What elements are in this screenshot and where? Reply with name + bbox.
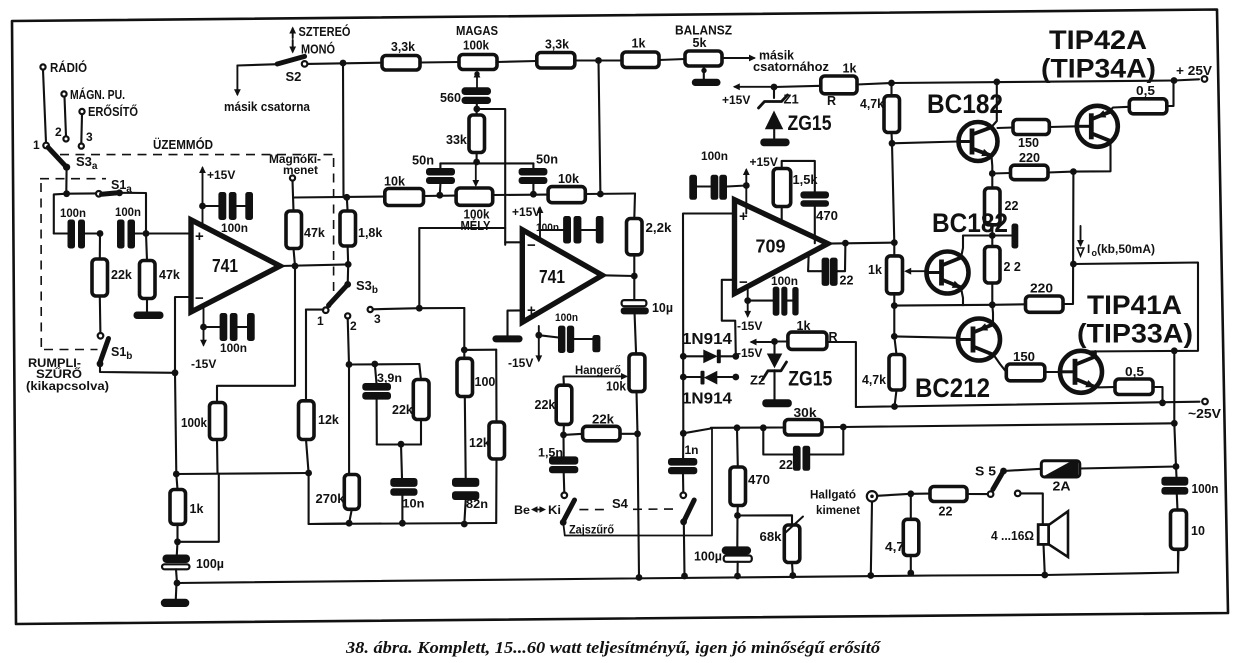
node D1 right [732, 353, 739, 360]
node 470 bottom [734, 512, 792, 525]
potentiometer Hangero 10k [564, 354, 645, 394]
node U1 vm [200, 324, 207, 331]
svg-text:ÜZEMMÓD: ÜZEMMÓD [153, 137, 213, 152]
node A [97, 230, 104, 237]
svg-text:220: 220 [1030, 282, 1053, 296]
node D2 left [680, 374, 687, 381]
node B [143, 230, 150, 237]
svg-text:10k: 10k [558, 172, 579, 186]
svg-text:100n: 100n [60, 206, 86, 220]
svg-text:30k: 30k [794, 406, 817, 420]
potentiometer BALANSZ 5k [675, 24, 732, 80]
svg-text:1N914: 1N914 [682, 331, 732, 348]
svg-text:470: 470 [816, 209, 838, 223]
svg-text:csatornához: csatornához [753, 60, 829, 74]
-15V arrow Z2 [737, 339, 775, 360]
svg-text:560: 560 [440, 91, 461, 105]
capacitor 100u [162, 542, 224, 583]
capacitor 100n U1 bottom [204, 313, 255, 355]
wire U3 out [828, 243, 895, 244]
wire [575, 59, 622, 61]
op-amp U1 741 [191, 220, 280, 312]
resistor 22k C [535, 385, 572, 435]
node top right [595, 57, 602, 64]
svg-text:1: 1 [33, 138, 40, 152]
svg-text:100k: 100k [463, 39, 489, 53]
resistor 47k input [140, 234, 180, 313]
wire [659, 59, 685, 60]
svg-text:3,3k: 3,3k [391, 40, 415, 54]
resistor 100k feedback [181, 403, 226, 474]
wire Q4 emitter [1095, 386, 1116, 389]
capacitor 100n U3 top [689, 149, 746, 200]
switch S1a [96, 178, 146, 234]
wire U3 minus loop [722, 280, 736, 357]
node 560 bottom [473, 106, 505, 245]
svg-text:470: 470 [748, 473, 770, 487]
svg-text:709: 709 [756, 237, 786, 257]
wire inverting input U1 [175, 297, 191, 373]
wire BC182-1 base [892, 142, 959, 144]
svg-text:(kikapcsolva): (kikapcsolva) [26, 381, 109, 393]
node 22 mid [989, 232, 996, 239]
svg-text:+ 25V: + 25V [1176, 63, 1212, 78]
+15V supply U1 [199, 166, 235, 226]
switch S3a [33, 125, 98, 172]
wire hallgato right [877, 494, 911, 496]
svg-text:Hangerő: Hangerő [575, 363, 621, 377]
resistor 1k R upper [774, 62, 892, 109]
diode D1 1N914 [682, 331, 736, 363]
resistor 4.7k A [860, 83, 900, 143]
wire [80, 115, 83, 144]
svg-text:+15V: +15V [512, 205, 540, 219]
capacitor 470 [800, 191, 838, 243]
wire 100/12k link [464, 349, 496, 351]
ground U2 plus [492, 335, 522, 342]
uzemmod dashed box [60, 137, 334, 301]
terminal EROSITO [79, 104, 138, 119]
svg-text:SZTEREÓ: SZTEREÓ [299, 24, 351, 39]
node driver base [889, 140, 896, 243]
node D2 right [732, 374, 739, 381]
capacitor 100n U2 top [536, 216, 604, 244]
svg-text:BC182: BC182 [932, 208, 1008, 238]
node D1 left [680, 353, 687, 360]
wire speaker rail [843, 423, 1174, 427]
label Be-Ki [514, 503, 561, 517]
label rumpli-szuro [26, 358, 109, 393]
node mid right [597, 61, 604, 198]
ground Z2 [762, 399, 792, 407]
svg-text:1n: 1n [685, 443, 699, 457]
svg-text:-15V: -15V [737, 346, 762, 360]
svg-text:150: 150 [1018, 136, 1039, 150]
+15V arrow Z1 [722, 83, 774, 107]
terminal speaker tap [1015, 491, 1043, 525]
node tone mid [440, 159, 533, 187]
svg-text:741: 741 [212, 256, 238, 276]
diode D2 1N914 [682, 371, 736, 408]
svg-text:ZG15: ZG15 [788, 368, 832, 391]
node out top [1171, 347, 1178, 354]
node Q1 emitter [989, 170, 996, 177]
svg-text:150: 150 [1013, 350, 1035, 364]
label BC182 upper [927, 89, 1003, 119]
svg-text:BC212: BC212 [915, 373, 990, 403]
svg-text:100n: 100n [701, 149, 728, 163]
svg-text:100n: 100n [220, 341, 247, 355]
svg-text:S4: S4 [612, 496, 629, 511]
wire S3b p1 [306, 309, 323, 311]
svg-text:50n: 50n [412, 154, 434, 168]
-15V supply U3 [737, 287, 762, 333]
svg-text:100n: 100n [221, 221, 248, 235]
svg-text:R: R [827, 94, 836, 108]
svg-text:Z1: Z1 [784, 92, 799, 107]
svg-text:50n: 50n [536, 153, 558, 167]
zener Z1 ZG15 [759, 87, 832, 139]
svg-text:1k: 1k [190, 502, 204, 516]
svg-text:12k: 12k [469, 436, 490, 450]
svg-text:+: + [527, 302, 536, 319]
node diode junction [680, 429, 711, 437]
svg-text:22k: 22k [592, 413, 614, 427]
svg-text:1,8k: 1,8k [358, 226, 382, 240]
svg-text:+15V: +15V [722, 93, 750, 107]
svg-text:4 ...16Ω: 4 ...16Ω [991, 529, 1034, 543]
transistor Q5 BC212 [958, 319, 1000, 361]
wire S3b p3 [373, 308, 465, 309]
ground bus [177, 549, 1178, 583]
node fb [172, 369, 179, 474]
capacitor 1n [668, 433, 699, 492]
svg-text:2: 2 [350, 319, 357, 333]
svg-text:22: 22 [939, 505, 953, 519]
node U3 out [842, 240, 849, 247]
+15V supply U2 [512, 205, 543, 240]
resistor 0.5 A [1129, 82, 1173, 114]
svg-text:-15V: -15V [737, 319, 762, 333]
svg-text:(TIP33A): (TIP33A) [1077, 319, 1193, 349]
op-amp U3 709 [735, 200, 828, 294]
svg-text:47k: 47k [304, 226, 325, 240]
svg-text:-15V: -15V [191, 357, 216, 371]
node 10n top [398, 441, 405, 478]
svg-text:4,7: 4,7 [885, 540, 904, 554]
bus mid [309, 520, 497, 528]
svg-text:1k: 1k [843, 62, 857, 76]
fuse 2A [1041, 461, 1080, 494]
capacitor 10n [390, 478, 424, 523]
svg-text:47k: 47k [159, 268, 180, 282]
svg-text:38. ábra. Komplett, 15...60 wa: 38. ábra. Komplett, 15...60 watt teljesí… [345, 638, 882, 657]
svg-text:3: 3 [374, 312, 381, 326]
node mely left [424, 192, 457, 199]
svg-text:TIP41A: TIP41A [1087, 290, 1182, 320]
zener Z2 ZG15 [750, 342, 833, 400]
wire magnoki tap [293, 197, 385, 198]
rumpli dashed box [40, 179, 106, 350]
capacitor 1.5n [538, 435, 578, 493]
-15V supply U1 [191, 305, 216, 371]
svg-text:BC182: BC182 [927, 89, 1003, 119]
svg-text:22: 22 [840, 274, 854, 288]
svg-text:(kb,50mA): (kb,50mA) [1097, 244, 1155, 256]
svg-text:741: 741 [539, 267, 565, 287]
ground main [161, 583, 190, 607]
node volume divider [560, 432, 567, 439]
switch S2 [277, 24, 351, 84]
node 30k left [734, 424, 741, 431]
svg-text:S 5: S 5 [975, 464, 996, 479]
svg-text:82n: 82n [466, 497, 488, 511]
wire U1 output [280, 264, 348, 266]
wire U2 out [602, 274, 634, 277]
wire io to collector node [1073, 263, 1198, 352]
potentiometer MAGAS 100k [456, 24, 498, 88]
svg-text:S2: S2 [286, 69, 302, 84]
wire to 2.2k [633, 194, 636, 219]
svg-text:10µ: 10µ [652, 301, 673, 315]
node pot bottom [634, 430, 641, 577]
node io [1070, 261, 1077, 268]
svg-text:10k: 10k [606, 380, 626, 394]
svg-text:+15V: +15V [750, 155, 778, 169]
svg-text:TIP42A: TIP42A [1049, 25, 1147, 55]
svg-text:ZG15: ZG15 [788, 112, 832, 135]
resistor 10k mid left [384, 175, 424, 206]
capacitor 100n input A [54, 206, 100, 249]
svg-text:RÁDIÓ: RÁDIÓ [50, 60, 87, 75]
node emitter row right [989, 301, 996, 308]
transistor Q1 BC182 [959, 122, 998, 161]
wire 709out node [891, 239, 898, 336]
svg-text:100: 100 [475, 375, 496, 389]
node bc212 base [891, 333, 958, 340]
capacitor 50n left [412, 154, 455, 196]
wire Q2 collector [1073, 142, 1110, 172]
terminal hallgato [867, 491, 877, 501]
svg-text:~25V: ~25V [1188, 406, 1221, 421]
ground 5k [692, 79, 721, 86]
resistor 30k [785, 406, 844, 435]
node Z2 top [771, 338, 778, 345]
svg-text:−: − [739, 274, 748, 291]
svg-text:-15V: -15V [508, 356, 533, 370]
svg-text:22k: 22k [535, 398, 556, 412]
node top [340, 60, 347, 67]
wire out to S3b [345, 261, 352, 284]
resistor 270k [316, 361, 360, 523]
ground 47k [134, 312, 164, 320]
terminal Magnoki-menet [269, 154, 321, 181]
switch S3b [317, 278, 381, 333]
wire S2 to 3.3k [307, 63, 382, 64]
resistor 22 out [911, 487, 988, 519]
svg-text:0,5: 0,5 [1125, 365, 1144, 379]
capacitor 82n [452, 478, 488, 524]
svg-text:22: 22 [779, 458, 793, 472]
wire [43, 70, 46, 143]
resistor 220 A [992, 151, 1073, 180]
svg-text:(TIP34A): (TIP34A) [1041, 54, 1156, 84]
resistor 220 B [992, 172, 1073, 313]
switch S4 dashes [579, 496, 677, 511]
wire U2 minus [505, 241, 522, 243]
resistor 68k [760, 517, 804, 576]
svg-text:1k: 1k [868, 263, 882, 277]
svg-text:2,2k: 2,2k [646, 221, 672, 235]
resistor 4.7k B [862, 336, 905, 406]
wire 30k row [711, 426, 785, 428]
svg-text:10k: 10k [384, 175, 405, 189]
svg-text:100µ: 100µ [694, 550, 722, 564]
svg-text:220: 220 [1019, 151, 1040, 165]
svg-text:100n: 100n [1192, 482, 1219, 496]
resistor 0.5 B [1115, 365, 1163, 403]
resistor 1k top [622, 37, 659, 68]
svg-text:+: + [195, 228, 204, 245]
svg-text:2: 2 [55, 125, 62, 139]
node S3a out [54, 190, 96, 233]
svg-text:Be: Be [514, 503, 530, 517]
node 4.7 top [907, 490, 914, 497]
potentiometer MELY 100k [456, 188, 493, 233]
svg-text:3,3k: 3,3k [545, 38, 569, 52]
svg-text:22k: 22k [392, 403, 413, 417]
wire [420, 61, 459, 64]
resistor 12k A [299, 310, 339, 473]
transistor Q2 TIP42A [1077, 106, 1118, 147]
node fb bus right [305, 470, 349, 524]
capacitor stub 22 mid [992, 224, 1018, 249]
resistor 22 A [985, 174, 1019, 247]
wire [65, 97, 67, 136]
wire masik csatornahoz [722, 49, 829, 75]
resistor 1k trim [868, 256, 926, 294]
svg-text:2 2: 2 2 [1004, 260, 1021, 274]
svg-text:másik csatorna: másik csatorna [224, 100, 311, 114]
node 30k right [840, 424, 847, 431]
wire speaker down [1044, 544, 1045, 575]
label hallgato [810, 488, 860, 518]
svg-text:3,9n: 3,9n [377, 371, 402, 385]
ground Z1 [760, 139, 789, 147]
capacitor 100n U3 bottom [748, 274, 799, 316]
wire Q1 collector [992, 82, 997, 127]
svg-text:Z2: Z2 [750, 373, 765, 388]
node mely right [493, 191, 548, 198]
output node vertical [1171, 351, 1180, 477]
wire Q2 emitter-up [1111, 107, 1130, 110]
transistor Q3 BC182 [927, 252, 969, 294]
wire Q3 collector [961, 236, 992, 258]
wire S5 to fuse [1004, 469, 1042, 471]
svg-text:1: 1 [317, 314, 324, 328]
svg-text:1N914: 1N914 [682, 391, 732, 408]
capacitor 100n input B [115, 205, 190, 249]
svg-text:Zajszűrő: Zajszűrő [569, 523, 614, 537]
capacitor 100n U1 top [203, 192, 254, 235]
svg-text:100µ: 100µ [196, 557, 224, 571]
io annotation [1077, 226, 1155, 258]
capacitor 22 fb [808, 243, 853, 287]
resistor 10k mid right [548, 172, 585, 203]
resistor 3.3k B [537, 38, 575, 69]
wire fuse out [1080, 467, 1176, 469]
+25V rail [888, 63, 1212, 86]
svg-text:100n: 100n [115, 205, 141, 219]
resistor 1.5k [773, 161, 817, 222]
resistor 4.7 [885, 494, 919, 573]
svg-text:33k: 33k [446, 133, 467, 147]
-25V rail [856, 399, 1221, 421]
capacitor 22 parallel [763, 427, 843, 472]
-15V supply U2 [508, 326, 542, 370]
capacitor 100u B [694, 516, 752, 577]
resistor 150 A [998, 120, 1077, 151]
resistor 22k B [392, 364, 429, 445]
terminal MAGN.PU [61, 87, 125, 102]
caption [345, 638, 882, 657]
wire pot bottom [637, 392, 638, 434]
label BC212 [915, 373, 990, 403]
svg-text:10n: 10n [402, 497, 424, 511]
svg-text:−: − [195, 290, 204, 307]
op-amp U2 741 [522, 230, 602, 322]
wire hallgato down [871, 502, 872, 576]
svg-text:5k: 5k [693, 36, 707, 50]
svg-text:kimenet: kimenet [816, 503, 860, 517]
node gnd [174, 580, 181, 587]
resistor 470 bias [730, 428, 770, 516]
svg-text:MÁGN. PU.: MÁGN. PU. [70, 87, 125, 102]
svg-text:2A: 2A [1053, 479, 1072, 494]
wire U2 plus gnd [508, 310, 523, 335]
svg-text:Hallgató: Hallgató [810, 488, 856, 502]
node io top [1070, 168, 1077, 175]
switch S4 left [560, 493, 575, 526]
svg-text:100n: 100n [771, 274, 798, 288]
svg-text:100n: 100n [555, 312, 578, 324]
resistor 1k R lower [775, 319, 856, 407]
wire [65, 167, 67, 194]
node Z1 top [771, 84, 778, 91]
node 22 left [760, 424, 767, 431]
svg-text:1k: 1k [632, 37, 646, 51]
wire top drop [342, 63, 345, 197]
resistor 2.2k [627, 219, 672, 277]
label TIP42A [1041, 25, 1156, 84]
svg-text:ERŐSÍTŐ: ERŐSÍTŐ [88, 104, 138, 119]
resistor 1k ground leg [170, 474, 203, 542]
node 3.9n/22k top [349, 361, 419, 368]
svg-text:Ki: Ki [548, 503, 561, 517]
capacitor 100n zobel [1161, 477, 1218, 510]
node 1k trim bottom [891, 302, 898, 309]
terminal RADIO [40, 60, 87, 75]
resistor 12k B [469, 350, 505, 523]
wire Q3 emitter [961, 288, 963, 305]
wire 709 plus input [683, 214, 735, 434]
svg-text:menet: menet [283, 165, 318, 177]
capacitor 3.9n [362, 364, 402, 445]
node U3 vm [744, 297, 751, 304]
svg-text:3: 3 [86, 130, 93, 144]
svg-text:+15V: +15V [207, 168, 235, 182]
+15V supply U3 [743, 155, 778, 214]
